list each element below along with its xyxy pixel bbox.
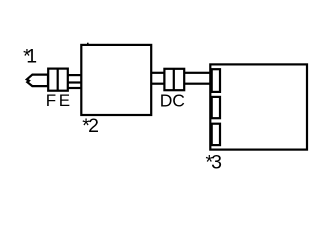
svg-text:2: 2	[88, 115, 99, 137]
wire W4 between connector DC and component *3	[183, 73, 211, 84]
terminal T2 on box *3	[212, 97, 220, 118]
wire W2 double wire between connector FE and box *2	[67, 75, 82, 88]
wire W1 broken-end arrow to connector FE	[27, 75, 48, 87]
svg-text:D: D	[160, 90, 173, 110]
wire W2 middle divider line	[67, 81, 82, 83]
tick mark on box *2 top edge	[87, 43, 89, 46]
terminal T1 on box *3	[212, 69, 220, 92]
svg-text:3: 3	[211, 151, 222, 173]
connector DC divider	[173, 69, 175, 90]
svg-text:1: 1	[26, 46, 37, 68]
connector FE divider	[57, 69, 59, 91]
terminal T3 on box *3	[212, 124, 220, 145]
component box *2	[81, 45, 151, 115]
connector DC body	[164, 69, 184, 90]
connector FE body	[48, 69, 68, 91]
svg-text:C: C	[172, 90, 185, 110]
svg-text:F: F	[46, 91, 56, 110]
component box *3	[210, 64, 307, 149]
svg-text:E: E	[59, 91, 70, 110]
wire W3 between box *2 and connector DC	[150, 73, 165, 84]
